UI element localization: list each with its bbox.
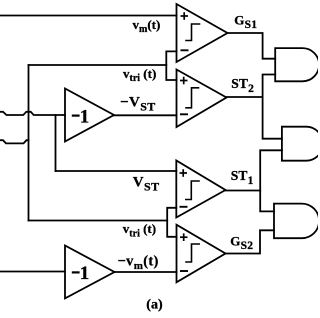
wire: v_tri input from left with crossover hop (wire2): [0, 140, 29, 143]
svg-text:(a): (a): [146, 297, 163, 312]
pin +: U2 plus sign: [180, 77, 188, 85]
pin -: U4 minus sign: [180, 270, 188, 272]
wire: V_ST horizontal to comparator U3 (H5): [56, 170, 177, 172]
wire: V_ST input with hop over v_tri bus (H3): [0, 112, 65, 115]
value label: -1 of A1: [72, 106, 90, 127]
wire: ST_2 output of U2 to G1 input B and G2 input A: [227, 96, 263, 98]
wire: v_m(t) input net H1: [0, 15, 177, 17]
wire: v_tri top horizontal H2: [29, 64, 167, 66]
svg-text:1: 1: [80, 106, 90, 127]
comparator U3: [176, 161, 225, 218]
svg-text:1: 1: [80, 263, 90, 284]
value label: -1 of A2: [72, 263, 90, 284]
wire: U1 minus input branch from v_tri (V3): [166, 51, 176, 80]
wire: v_tri vertical bus V1: [28, 65, 30, 221]
comparator U2: [177, 70, 227, 128]
wire: U3 minus / U4 plus branch from v_tri (V4): [167, 208, 176, 237]
wire: G_S1 output of U1 to AND gate G1 input A: [228, 33, 276, 59]
hysteresis symbol U2: [185, 88, 199, 108]
op-amp A1 inverter -1 (top): [65, 89, 114, 142]
wire: V_ST tap vertical V2: [55, 115, 57, 171]
wire: -V_ST output of A1 to U2 minus (H4): [114, 114, 177, 116]
wire: ST_1 output of U3 to G2 input B and G3 input A: [226, 190, 261, 192]
wire: G_S2 output of U4 to G3 input B: [226, 230, 275, 253]
pin -: U2 minus sign: [180, 113, 188, 115]
wire: v_tri bottom horizontal H6: [29, 220, 168, 222]
AND gate G3: [274, 204, 319, 239]
op-amp A2 inverter -1 (bottom): [65, 246, 115, 299]
wire: -v_m output of A2 to U4 minus (H8): [115, 271, 177, 273]
AND gate G2 (clipped at right edge): [282, 127, 320, 161]
pin +: U3 plus sign: [180, 169, 188, 177]
pin +: U1 plus sign: [181, 12, 189, 20]
pin +: U4 plus sign: [180, 233, 188, 241]
comparator U4: [177, 225, 226, 283]
pin -: U1 minus sign: [181, 49, 189, 51]
pin -: U3 minus sign: [180, 206, 188, 208]
AND gate G1: [275, 48, 319, 81]
wire: input to inverter A2 (H7): [0, 271, 65, 273]
comparator U1: [177, 4, 228, 62]
hysteresis symbol U1: [185, 24, 200, 41]
hysteresis symbol U3: [185, 181, 200, 200]
hysteresis symbol U4: [185, 244, 200, 262]
